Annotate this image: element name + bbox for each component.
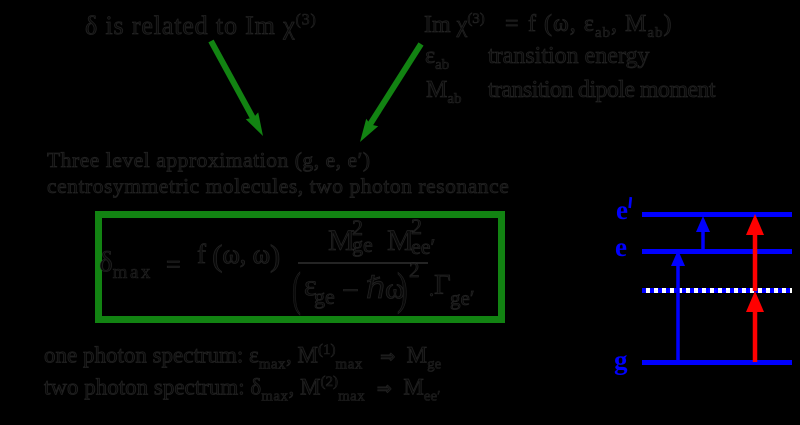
equation delta_max (99, 246, 153, 284)
svg-text:g: g (614, 345, 628, 375)
equation f(omega, omega) (197, 238, 280, 274)
red arrow g to virtual (746, 291, 764, 362)
paragraph line 2: centrosymmetric molecules, two photon resonance (47, 174, 509, 199)
energy level g line (642, 360, 792, 365)
blue arrow g to e (671, 250, 685, 362)
numerator M2ge M2ee' (328, 224, 355, 258)
svg-text:e: e (615, 232, 627, 262)
paragraph line 1: Three level approximation (g, e, e') (47, 148, 371, 173)
red arrow virtual to e' (746, 214, 764, 291)
denominator (eps_ge - hbar omega)^2 Gamma_ge' (292, 262, 301, 317)
energy level e' line (642, 212, 792, 217)
energy level e line (642, 249, 792, 254)
equation equals sign (166, 250, 181, 280)
right block line 2: eps_ab transition energy (425, 43, 449, 74)
bottom line 1: one photon spectrum (44, 342, 441, 373)
blue arrow e to e' (696, 216, 710, 251)
bottom line 2: two photon spectrum (44, 374, 440, 405)
green arrow left (211, 41, 263, 136)
right block line 1: Im chi(3) = f(omega, eps_ab, M_ab) (424, 11, 485, 39)
svg-text:e: e (616, 195, 628, 225)
title: delta is related to Im chi(3) (85, 11, 317, 41)
green arrow right (360, 44, 421, 142)
virtual level dashed line (642, 288, 792, 293)
right block line 3: M_ab transition dipole moment (426, 77, 462, 108)
fraction bar (298, 262, 428, 264)
green box around equation (95, 211, 505, 323)
